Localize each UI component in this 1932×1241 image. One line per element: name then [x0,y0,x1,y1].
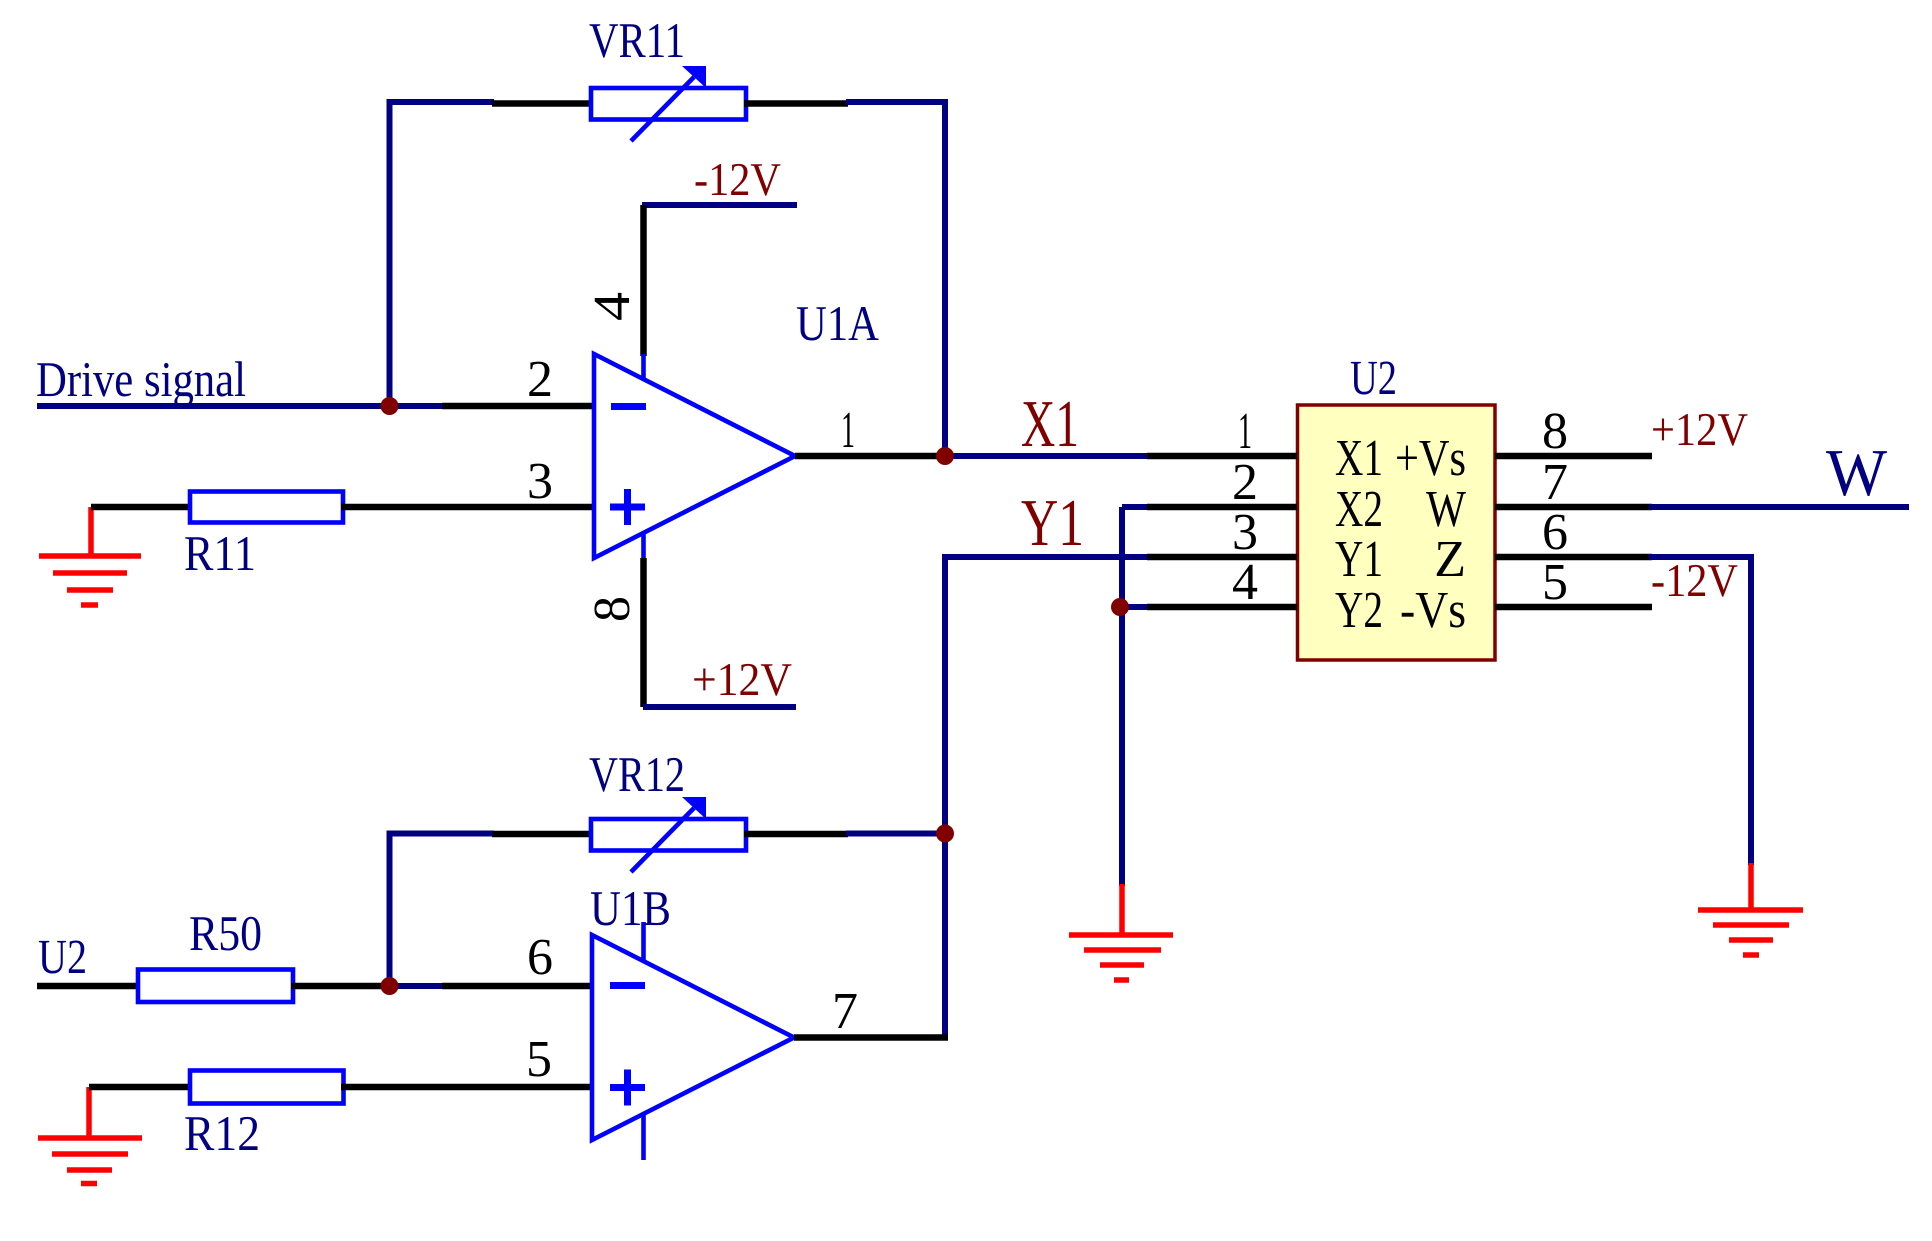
svg-text:2: 2 [527,351,553,408]
svg-text:Y2: Y2 [1335,582,1383,639]
power bar +12V (navy) [643,704,796,710]
svg-text:-12V: -12V [1651,555,1738,607]
wire: VR12 right lead (black) [744,831,848,838]
junction: pin4 / ground net [1111,598,1129,616]
svg-text:W: W [1826,436,1888,510]
svg-text:6: 6 [1542,504,1568,561]
svg-text:W: W [1426,481,1466,538]
op-amp U1B bottom power stub [641,1114,646,1160]
wire: U2 net to R50 (black) [37,983,140,990]
wire: Y1 net (navy) [945,557,1149,1038]
svg-text:1: 1 [841,402,855,459]
junction: drive signal / feedback [381,397,399,415]
op-amp U1B top power stub [641,922,646,961]
wire: U2 pin3 lead (black) [1147,554,1297,561]
svg-text:X1: X1 [1021,387,1079,461]
junction: VR12 right / Y1 vertical [936,825,954,843]
svg-text:5: 5 [526,1031,552,1088]
power bar -12V (navy) [642,202,797,208]
svg-text:U1A: U1A [796,295,879,351]
wire: ground to R12 (black) [89,1084,192,1091]
wire: VR11 left lead (black) [492,100,593,107]
wire: VR11 feedback net from inverting input junction up and right [390,102,495,409]
wire: W net (navy) [1649,504,1909,510]
op-amp U1A bottom power stub [641,532,646,560]
wire: X2/Y2 ground net vertical (navy) [1119,507,1125,886]
svg-text:4: 4 [1232,554,1258,611]
junction: output/feedback/X1 [936,447,954,465]
wire: U2 pin7 lead (black) [1495,504,1652,511]
ground: Z net [1748,863,1754,910]
svg-text:1: 1 [1238,403,1252,460]
wire: U1A pin2 lead (black) [442,403,594,410]
op-amp U1A plus input mark [610,504,645,511]
svg-text:-12V: -12V [694,154,781,206]
wire: Z net to ground (navy) [1649,557,1751,865]
svg-text:5: 5 [1542,554,1568,611]
wire: VR12 left lead (black) [492,831,593,838]
svg-text:R11: R11 [184,525,256,581]
wire: U1A pin8 power wire (black) [640,558,647,707]
wire: U2 pin4 lead [1122,604,1149,610]
wire: U2 pin6 lead (black) [1495,554,1652,561]
junction: R50 / VR12 feedback [381,977,399,995]
svg-text:3: 3 [527,453,553,510]
svg-text:8: 8 [584,596,641,622]
svg-text:U2: U2 [1350,350,1397,405]
wire: U1B output pin7 (black) [794,1034,948,1041]
svg-text:Z: Z [1434,531,1466,588]
wire: VR11 right lead (black) [744,100,848,107]
svg-text:X1: X1 [1335,430,1383,487]
svg-text:X2: X2 [1335,481,1383,538]
svg-text:Drive signal: Drive signal [36,351,246,407]
resistor R12 body [190,1071,344,1104]
wire: R11 to U1A pin3 (black) [341,504,594,511]
resistor R11 body [190,492,343,523]
svg-text:Y1: Y1 [1021,486,1084,560]
svg-text:R50: R50 [189,905,262,961]
svg-text:U2: U2 [38,929,87,984]
ground: X2/Y2 net [1119,884,1125,935]
svg-text:3: 3 [1232,504,1258,561]
svg-text:8: 8 [1542,403,1568,460]
wire: VR12 to U1B output node (navy) [846,831,945,837]
svg-text:7: 7 [832,983,858,1040]
wire: U2 pin8 lead (black) [1495,453,1652,460]
ground: R11 input [88,507,94,556]
potentiometer VR12 wiper arrow [631,808,694,872]
wire: VR12 feedback net (navy) [390,834,495,990]
svg-text:7: 7 [1542,454,1568,511]
op-amp U1B triangle [592,935,794,1140]
wire: ground to R11 (black) [91,504,192,511]
wire: X1 net (navy) [945,453,1149,459]
potentiometer VR11 wiper arrow [631,77,694,141]
chip U2 body [1298,405,1496,660]
potentiometer VR11 body [591,88,746,120]
wire: U2 pin2 lead [1122,504,1149,510]
svg-text:+12V: +12V [1651,404,1748,456]
resistor R50 body [138,970,293,1003]
op-amp U1A minus input mark [611,403,646,410]
wire: U1A pin4 power wire (black) [640,205,647,356]
wire: VR11 output to U1A output node (navy) [846,102,945,456]
wire: U2 pin1 lead (black) [1147,453,1297,460]
potentiometer VR12 body [591,819,746,851]
svg-text:2: 2 [1232,454,1258,511]
op-amp U1A top power stub [641,354,646,380]
wire: U1A output pin1 (black) [795,453,945,460]
op-amp U1A triangle [594,354,795,558]
svg-text:Y1: Y1 [1335,531,1383,588]
wire: R12 to U1B pin5 (black) [341,1084,594,1091]
svg-text:+Vs: +Vs [1395,430,1466,487]
svg-text:VR12: VR12 [589,746,685,802]
op-amp U1B plus input mark [610,1084,645,1091]
svg-text:4: 4 [584,292,641,321]
wire: junction to U1B pin6 (navy then black) [390,983,445,989]
svg-text:-Vs: -Vs [1400,582,1466,639]
ground: R12 input [86,1087,92,1137]
wire: U2 pin5 lead (black) [1495,604,1652,611]
svg-text:+12V: +12V [692,654,792,706]
svg-text:6: 6 [527,929,553,986]
wire: drive signal net (navy) [37,403,444,409]
svg-text:U1B: U1B [590,880,671,936]
svg-text:R12: R12 [184,1105,260,1161]
op-amp U1B minus input mark [610,982,645,989]
svg-text:VR11: VR11 [589,12,685,68]
wire: R50 to junction (black) [291,983,391,990]
